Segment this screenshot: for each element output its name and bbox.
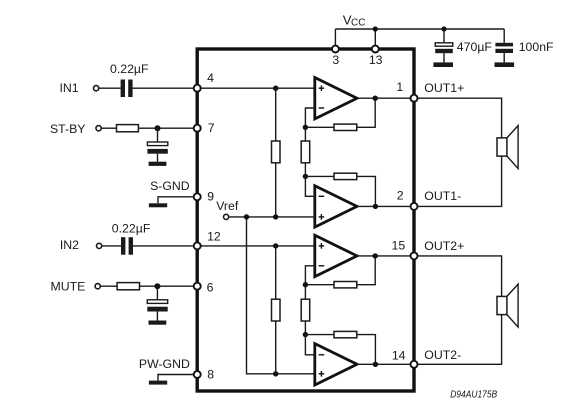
- svg-text:12: 12: [207, 230, 221, 244]
- svg-text:IN1: IN1: [59, 81, 78, 95]
- svg-text:PW-GND: PW-GND: [139, 357, 190, 371]
- svg-text:3: 3: [332, 53, 339, 67]
- svg-text:1: 1: [396, 80, 403, 94]
- svg-text:15: 15: [392, 239, 406, 253]
- svg-text:6: 6: [207, 280, 214, 294]
- svg-text:0.22µF: 0.22µF: [112, 221, 151, 235]
- svg-text:100nF: 100nF: [519, 40, 554, 54]
- svg-text:14: 14: [392, 349, 406, 363]
- svg-text:OUT2+: OUT2+: [424, 239, 464, 253]
- svg-text:9: 9: [207, 190, 214, 204]
- svg-text:7: 7: [208, 121, 215, 135]
- svg-text:D94AU175B: D94AU175B: [450, 389, 497, 400]
- svg-text:0.22µF: 0.22µF: [110, 62, 149, 76]
- svg-text:S-GND: S-GND: [150, 179, 190, 193]
- svg-text:470µF: 470µF: [457, 40, 493, 54]
- svg-text:Vref: Vref: [216, 199, 239, 213]
- svg-text:CC: CC: [351, 18, 365, 29]
- svg-text:4: 4: [207, 71, 214, 85]
- svg-text:OUT1-: OUT1-: [424, 189, 461, 203]
- svg-text:2: 2: [397, 189, 404, 203]
- svg-text:IN2: IN2: [60, 238, 79, 252]
- svg-text:ST-BY: ST-BY: [50, 122, 86, 136]
- svg-text:OUT2-: OUT2-: [424, 348, 461, 362]
- svg-text:MUTE: MUTE: [50, 279, 85, 293]
- svg-text:8: 8: [207, 367, 214, 381]
- svg-text:OUT1+: OUT1+: [424, 81, 464, 95]
- svg-text:13: 13: [369, 53, 383, 67]
